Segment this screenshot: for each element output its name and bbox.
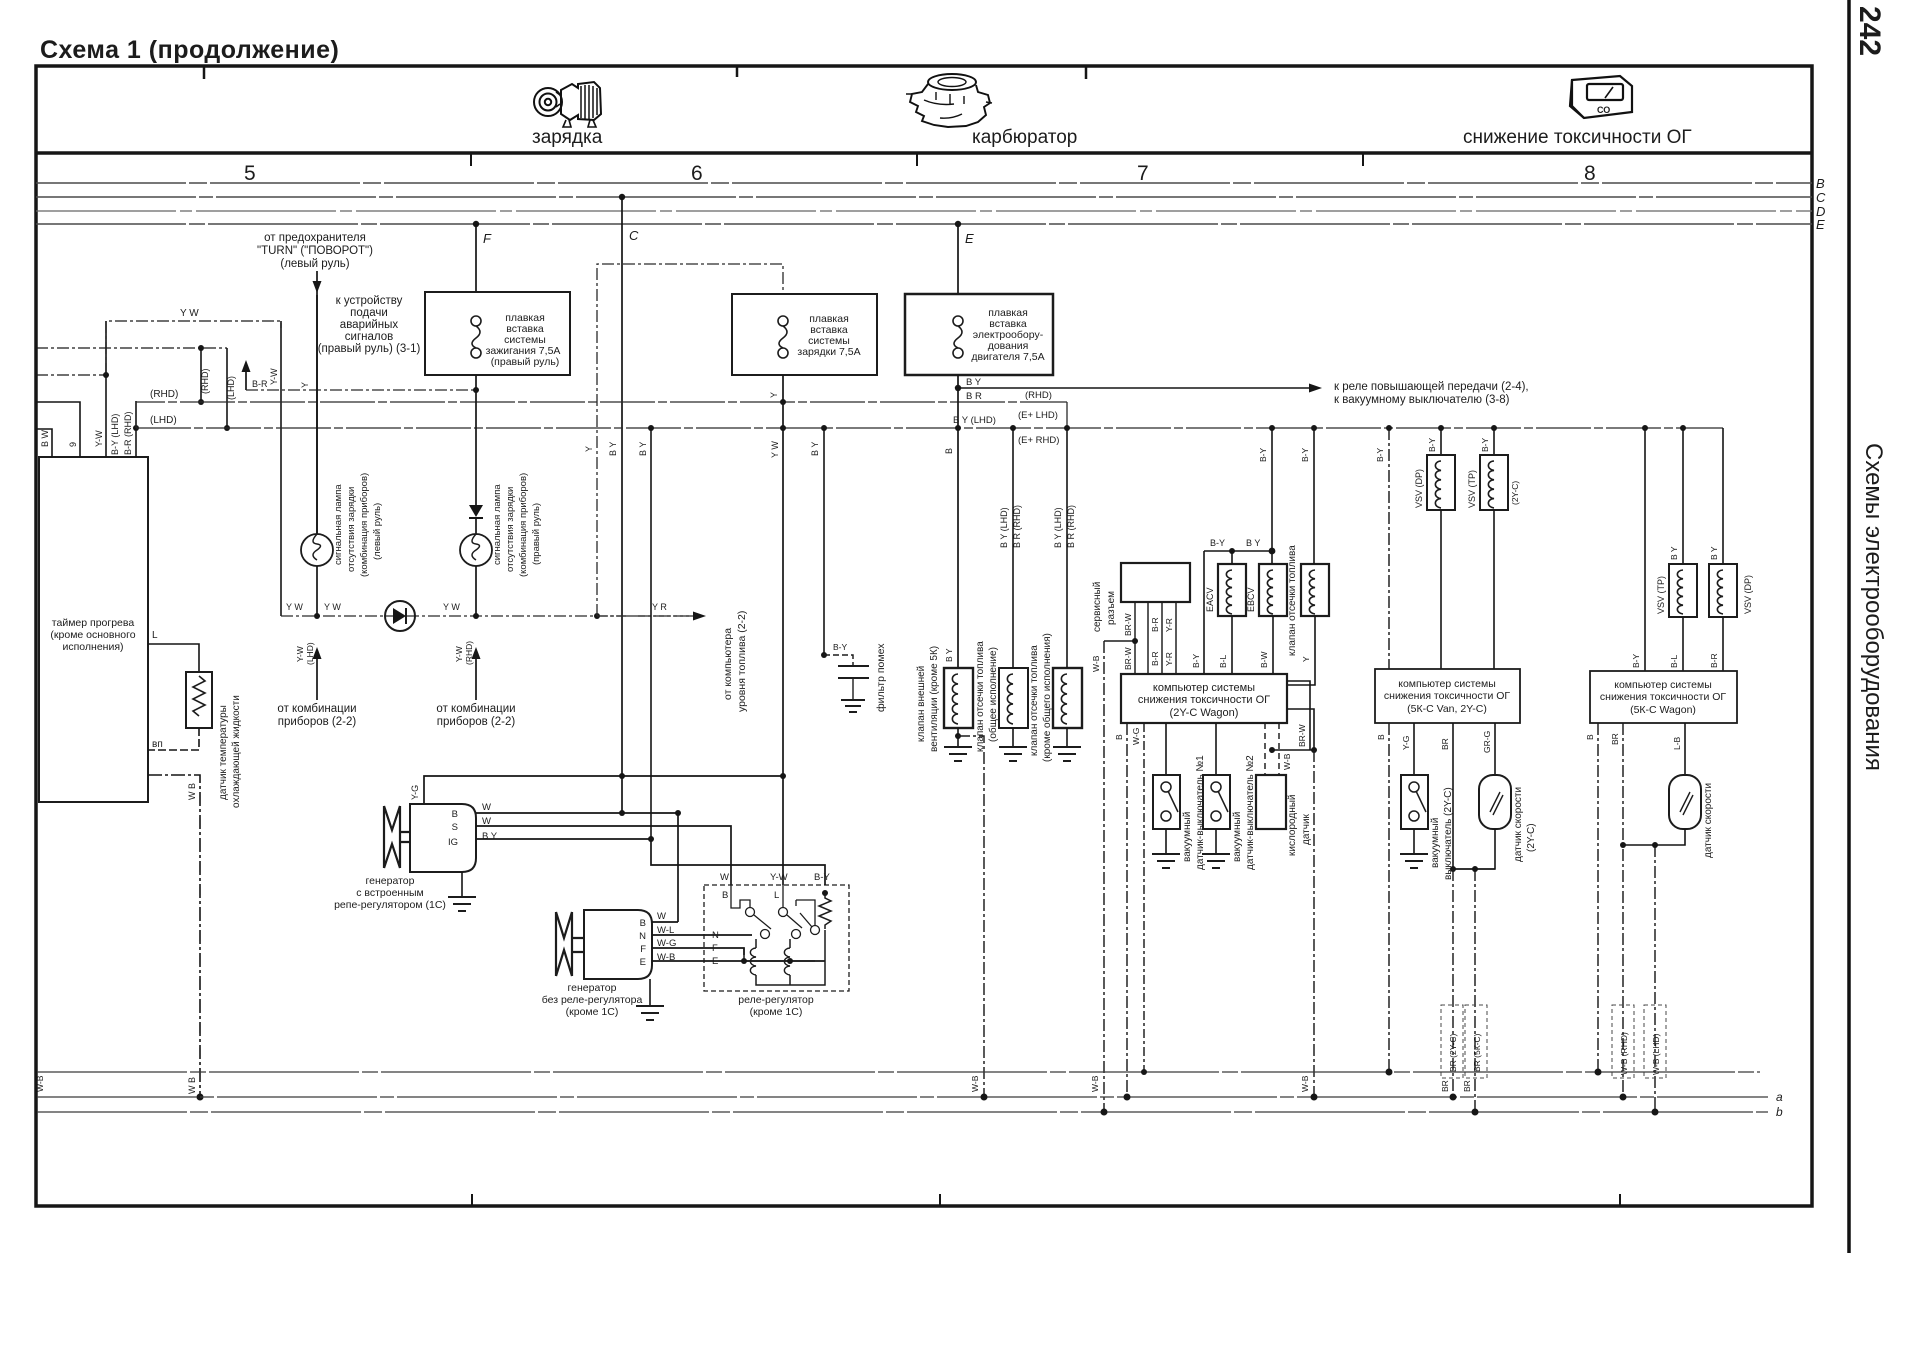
node W-B row right xyxy=(1311,747,1317,753)
wire W-B branch to bottom xyxy=(958,736,984,1097)
ground vsw comp2 xyxy=(1400,854,1428,868)
svg-text:(LHD): (LHD) xyxy=(226,376,236,400)
svg-text:a: a xyxy=(1776,1090,1783,1104)
note к устройству подачи аварийных сигналов xyxy=(318,295,421,355)
svg-text:вп: вп xyxy=(152,739,163,750)
VSV (DP) left box xyxy=(1427,455,1455,510)
svg-text:W B: W B xyxy=(187,1077,197,1094)
svg-text:B Y: B Y xyxy=(638,442,648,456)
svg-text:зарядки 7,5А: зарядки 7,5А xyxy=(797,346,860,358)
arrowhead right on fuel computer wire xyxy=(693,612,706,621)
node y402 end corner xyxy=(1066,402,1068,428)
wire VSV TP2 to comp3 xyxy=(1682,617,1684,671)
vacuum switch comp2 box xyxy=(1401,775,1428,829)
label box BR (2Y-C) xyxy=(1441,1005,1463,1078)
node BR joint xyxy=(1450,866,1456,872)
svg-text:с встроенным: с встроенным xyxy=(356,887,424,899)
wire gen2 B row to riser xyxy=(652,921,678,923)
lamp сигнальная лампа (левый руль) xyxy=(301,534,333,566)
bus line D xyxy=(36,210,1812,212)
node upper rail x1144 xyxy=(1141,1069,1147,1075)
bottom border tick 2 xyxy=(939,1194,941,1205)
svg-text:фильтр помех: фильтр помех xyxy=(875,643,887,712)
svg-text:BR: BR xyxy=(1462,1080,1472,1092)
vacuum switch 2 box xyxy=(1203,775,1230,829)
svg-text:охлаждающей жидкости: охлаждающей жидкости xyxy=(231,695,242,808)
bottom rail a xyxy=(37,1096,1768,1098)
node a x1127 xyxy=(1124,1094,1131,1101)
wire valve2 bottom to ground xyxy=(1012,728,1014,747)
svg-text:без реле-регулятора: без реле-регулятора xyxy=(542,994,643,1006)
svg-text:BR: BR xyxy=(1440,738,1450,750)
svg-text:датчик-выключатель №1: датчик-выключатель №1 xyxy=(1195,755,1206,870)
svg-text:W-B: W-B xyxy=(970,1075,980,1092)
bottom rail b xyxy=(37,1111,1768,1113)
node filter xyxy=(821,652,827,658)
wire VSV TP1 riser xyxy=(1493,428,1495,455)
wire B-Y into computer1 xyxy=(1203,551,1205,674)
svg-text:W-B: W-B xyxy=(35,1075,45,1092)
svg-text:(правый руль): (правый руль) xyxy=(531,503,542,565)
svg-text:Y: Y xyxy=(584,446,594,452)
svg-text:от компьютера: от компьютера xyxy=(722,628,734,700)
svg-text:BR-W: BR-W xyxy=(1297,724,1307,747)
wire link y264 to fuse2 xyxy=(597,264,783,616)
diode on lamp2 column xyxy=(469,505,483,518)
wire gen2 N row xyxy=(652,934,752,936)
fuse element F2 xyxy=(778,316,788,358)
relay coil 1 xyxy=(750,948,756,975)
node relay B-Y top xyxy=(822,890,828,896)
svg-text:E: E xyxy=(640,957,646,968)
wire rail B-R y390 xyxy=(246,389,476,391)
svg-text:B-R: B-R xyxy=(1709,653,1719,668)
wire BR continue to rail a xyxy=(1452,869,1454,1097)
wire EACV top stub xyxy=(1231,551,1233,564)
svg-text:IG: IG xyxy=(448,837,458,848)
node relay E1 xyxy=(741,958,747,964)
svg-text:уровня топлива (2-2): уровня топлива (2-2) xyxy=(736,611,748,712)
svg-text:F: F xyxy=(640,944,646,955)
wires service connector pins xyxy=(1135,602,1176,674)
svg-text:B-L: B-L xyxy=(1218,655,1228,669)
svg-text:от комбинации: от комбинации xyxy=(436,703,515,715)
node fuse2 y428 xyxy=(780,425,786,431)
wire sensor bottom to timer xyxy=(148,728,199,750)
svg-text:B-L: B-L xyxy=(1669,655,1679,669)
svg-text:W: W xyxy=(657,911,666,922)
wire valve2 top xyxy=(1012,428,1014,668)
svg-text:W-B: W-B xyxy=(1282,753,1292,770)
node fuse1 out xyxy=(473,387,479,393)
tick on top border xyxy=(203,67,206,79)
wire LHD column xyxy=(226,348,228,428)
svg-text:W-G: W-G xyxy=(1131,728,1141,745)
wire comp3 B drop xyxy=(1597,723,1599,1072)
wire gen1 B row xyxy=(476,812,678,814)
svg-text:датчик скорости: датчик скорости xyxy=(1703,783,1714,858)
svg-text:карбюратор: карбюратор xyxy=(972,127,1077,148)
wire VSV TP1 to comp2 xyxy=(1493,510,1495,669)
svg-text:B: B xyxy=(452,809,458,820)
wire W-B LHD drop xyxy=(1654,845,1656,1112)
svg-text:датчик температуры: датчик температуры xyxy=(218,705,229,800)
outer frame of schematic sheet xyxy=(36,66,1812,1206)
svg-text:компьютер системы: компьютер системы xyxy=(1153,682,1255,694)
svg-text:Y W: Y W xyxy=(180,308,199,319)
svg-text:B-Y (LHD): B-Y (LHD) xyxy=(110,414,120,455)
fuse box F3 плавкая вставка электрооборудования xyxy=(905,294,1053,375)
svg-text:B Y (LHD): B Y (LHD) xyxy=(953,415,996,426)
wire VSV TP2 riser xyxy=(1682,428,1684,564)
valve клапан отсечки топлива right box xyxy=(1301,564,1329,616)
svg-text:генератор: генератор xyxy=(366,875,415,887)
wire rail LHD y428 main xyxy=(136,427,1723,429)
wire speed sensor1 bottom xyxy=(1453,829,1495,869)
svg-text:Схема 1 (продолжение): Схема 1 (продолжение) xyxy=(40,36,339,64)
node comp3 BR joint xyxy=(1620,842,1626,848)
svg-text:Y W: Y W xyxy=(770,441,780,458)
svg-text:Y R: Y R xyxy=(652,602,667,612)
ruler tick 3 xyxy=(1362,153,1364,166)
svg-text:сигнальная лампа: сигнальная лампа xyxy=(492,484,503,565)
svg-text:снижения токсичности ОГ: снижения токсичности ОГ xyxy=(1384,690,1511,702)
svg-text:(правый руль) (3-1): (правый руль) (3-1) xyxy=(318,343,421,355)
wire VSV DP1 riser xyxy=(1440,428,1442,455)
relay regulator box реле-регулятор xyxy=(704,885,849,991)
wire EACV to computer xyxy=(1231,616,1233,674)
svg-text:снижения токсичности ОГ: снижения токсичности ОГ xyxy=(1600,691,1727,703)
label box W-B (RHD) xyxy=(1612,1005,1634,1078)
svg-text:(RHD): (RHD) xyxy=(200,369,210,395)
wire C drop from bus C xyxy=(621,197,623,813)
wire stub B-W from left border xyxy=(36,429,52,457)
node b x1475 xyxy=(1472,1109,1479,1116)
svg-text:C: C xyxy=(1816,190,1826,205)
wire Y-W pin into timer xyxy=(105,321,107,457)
svg-text:(правый руль): (правый руль) xyxy=(491,356,560,368)
svg-text:клапан отсечки топлива: клапан отсечки топлива xyxy=(975,641,986,752)
wire W-B from timer to bottom rail xyxy=(148,775,200,1097)
wire W-B feed to service pins xyxy=(1104,640,1135,642)
svg-text:снижения токсичности ОГ: снижения токсичности ОГ xyxy=(1138,694,1270,706)
oxygen sensor box кислородный датчик xyxy=(1256,775,1286,829)
wire arrow up to аварийные сигналы xyxy=(245,372,247,390)
node Y-W stub xyxy=(103,372,109,378)
bus line C xyxy=(36,196,1812,198)
node W-B on rail a xyxy=(197,1094,204,1101)
svg-text:W-B: W-B xyxy=(1300,1075,1310,1092)
svg-text:зарядка: зарядка xyxy=(532,127,603,148)
arrowhead up right xyxy=(472,647,481,659)
svg-text:F: F xyxy=(712,943,718,954)
svg-text:BR-W: BR-W xyxy=(1123,647,1133,670)
svg-text:B-Y: B-Y xyxy=(1191,654,1201,669)
wire W-B drop from service xyxy=(1103,641,1105,1112)
svg-text:(общее исполнение): (общее исполнение) xyxy=(987,647,999,742)
computer3 box компьютер системы 5K-C Wagon xyxy=(1590,671,1737,723)
wire fuse2 output riser xyxy=(782,375,784,885)
svg-text:сервисный: сервисный xyxy=(1092,582,1103,632)
svg-text:B-Y: B-Y xyxy=(1300,448,1310,463)
wire comp2 GR-G to speed sensor xyxy=(1494,723,1496,775)
wire valve3 top xyxy=(1066,428,1068,668)
label box W-B (LHD) xyxy=(1644,1005,1666,1078)
svg-text:вентиляции (кроме 5К): вентиляции (кроме 5К) xyxy=(929,646,940,752)
node x651 joint xyxy=(648,836,654,842)
svg-text:B-R (RHD): B-R (RHD) xyxy=(123,412,133,456)
svg-text:B: B xyxy=(1376,734,1386,740)
svg-text:приборов (2-2): приборов (2-2) xyxy=(437,716,516,728)
wire filter drop xyxy=(823,428,825,655)
svg-text:W: W xyxy=(720,872,729,883)
valve клапан отсечки топлива общий box xyxy=(999,668,1028,728)
ground vsw1 xyxy=(1152,854,1180,868)
node a x984 xyxy=(981,1094,988,1101)
svg-text:(кроме общего исполнения): (кроме общего исполнения) xyxy=(1041,633,1053,762)
svg-text:Y-W: Y-W xyxy=(94,430,104,447)
wire W-B row xyxy=(1272,749,1314,751)
ground valve3 xyxy=(1053,747,1081,761)
svg-text:W: W xyxy=(482,802,491,813)
node service BR-W xyxy=(1132,638,1138,644)
svg-text:Y: Y xyxy=(1301,656,1311,662)
node on bus E feeding fuse F xyxy=(473,221,479,227)
wire valve right top riser xyxy=(1313,428,1315,564)
svg-text:"TURN" ("ПОВОРОТ"): "TURN" ("ПОВОРОТ") xyxy=(257,245,373,257)
svg-text:E: E xyxy=(965,231,974,246)
node lamp2 xyxy=(473,613,479,619)
node gen1 B row x678 xyxy=(675,810,681,816)
wire gen1 IG row xyxy=(476,839,825,885)
node a x1314 xyxy=(1311,1094,1318,1101)
svg-text:9: 9 xyxy=(68,442,78,447)
tick on top border 3 xyxy=(1085,67,1088,79)
svg-text:BR: BR xyxy=(1440,1080,1450,1092)
svg-text:(E+ LHD): (E+ LHD) xyxy=(1018,410,1058,421)
node a x1453 xyxy=(1450,1094,1457,1101)
svg-text:вакуумный: вакуумный xyxy=(1182,812,1193,862)
node on bus E feeding fuse3 xyxy=(955,221,961,227)
svg-text:от предохранителя: от предохранителя xyxy=(264,232,366,244)
resistor датчик температуры охлаждающей жидкости xyxy=(186,672,212,728)
svg-text:EACV: EACV xyxy=(1205,587,1215,612)
svg-text:(E+ RHD): (E+ RHD) xyxy=(1018,435,1059,446)
svg-text:B Y: B Y xyxy=(608,442,618,456)
wire RHD column xyxy=(200,348,202,402)
svg-text:(левый руль): (левый руль) xyxy=(280,258,349,270)
node on bus C feeding wire C xyxy=(619,194,625,200)
node valve1 W-B branch xyxy=(955,733,961,739)
node lamp1 xyxy=(314,613,320,619)
svg-text:к вакуумному выключателю (3-8): к вакуумному выключателю (3-8) xyxy=(1334,394,1510,406)
wire fuse3 output xyxy=(957,375,959,668)
VSV (TP) left box xyxy=(1480,455,1508,510)
wire gen1 S row xyxy=(476,826,731,885)
wire E drop from bus E to fuse3 xyxy=(957,224,959,294)
svg-text:B-Y: B-Y xyxy=(1631,654,1641,669)
VSV (TP) right box xyxy=(1669,564,1697,617)
tick on top border 2 xyxy=(736,67,739,77)
svg-text:BR (5К-С): BR (5К-С) xyxy=(1472,1033,1482,1072)
svg-text:L: L xyxy=(152,630,158,641)
relay internal wires xyxy=(744,930,825,985)
svg-text:B-Y: B-Y xyxy=(1480,438,1490,453)
svg-text:(кроме 1С): (кроме 1С) xyxy=(566,1006,619,1018)
svg-text:(LHD): (LHD) xyxy=(305,642,315,665)
svg-text:EBCV: EBCV xyxy=(1246,587,1256,612)
wire second drop to rail b xyxy=(1474,869,1476,1112)
bottom border tick 1 xyxy=(471,1194,473,1205)
svg-text:(левый руль): (левый руль) xyxy=(372,503,383,560)
service connector box сервисный разъем xyxy=(1121,563,1190,602)
wire comp2 B riser xyxy=(1388,428,1390,669)
wire VSV DP1 to comp2 xyxy=(1440,510,1442,669)
svg-text:реле-регулятор: реле-регулятор xyxy=(738,994,814,1006)
fuse box F2 плавкая вставка системы зарядки xyxy=(732,294,877,375)
svg-text:таймер прогрева: таймер прогрева xyxy=(52,617,135,629)
svg-text:сигналов: сигналов xyxy=(345,331,393,343)
svg-text:F: F xyxy=(483,231,492,246)
svg-text:двигателя 7,5А: двигателя 7,5А xyxy=(971,351,1044,363)
node RHD column top xyxy=(198,345,204,351)
svg-text:L: L xyxy=(774,890,779,901)
wire comp1 to vacuum switch2 xyxy=(1215,723,1217,775)
node W-B row left xyxy=(1269,747,1275,753)
wire arrow от комбинации приборов right xyxy=(475,655,477,700)
node upper rail x1598 xyxy=(1595,1069,1602,1076)
svg-text:(комбинация приборов): (комбинация приборов) xyxy=(518,473,529,577)
svg-text:B Y: B Y xyxy=(482,831,498,842)
lamp сигнальная лампа (правый руль) xyxy=(460,534,492,566)
svg-text:(комбинация приборов): (комбинация приборов) xyxy=(359,473,370,577)
svg-text:Y-W: Y-W xyxy=(770,872,788,883)
svg-text:СО: СО xyxy=(1597,105,1610,115)
ruler tick 2 xyxy=(916,153,918,166)
svg-text:W-B (RHD): W-B (RHD) xyxy=(1619,1032,1629,1075)
svg-text:VSV (DP): VSV (DP) xyxy=(1414,469,1424,508)
wire riser YW to lamp line xyxy=(280,321,282,616)
valve клапан внешней вентиляции box xyxy=(944,668,973,728)
svg-text:b: b xyxy=(1776,1105,1783,1119)
svg-text:клапан внешней: клапан внешней xyxy=(916,666,927,742)
ground gen2 xyxy=(636,1006,664,1020)
svg-text:B W: B W xyxy=(40,429,50,447)
arrowhead up xyxy=(242,360,251,372)
wire timer L to sensor xyxy=(148,644,199,672)
node B-Y rail xyxy=(1269,425,1275,431)
svg-text:B-Y: B-Y xyxy=(814,872,831,883)
svg-text:клапан отсечки топлива: клапан отсечки топлива xyxy=(1029,645,1040,756)
wire B-Y top row EACV xyxy=(1204,550,1272,552)
wire comp2 B drop xyxy=(1388,723,1390,1072)
node x597 xyxy=(594,613,600,619)
svg-text:исполнения): исполнения) xyxy=(62,641,123,653)
svg-text:BR (2Y-C): BR (2Y-C) xyxy=(1448,1033,1458,1072)
svg-text:N: N xyxy=(712,930,719,941)
svg-text:E: E xyxy=(1816,217,1825,232)
node relay E2 xyxy=(787,958,793,964)
node VSV TP1 rail xyxy=(1491,425,1497,431)
speed sensor 2 датчик скорости xyxy=(1669,775,1701,829)
svg-text:Y-W: Y-W xyxy=(454,646,464,662)
node b x1655 xyxy=(1652,1109,1659,1116)
node LHD on rail xyxy=(224,425,230,431)
svg-text:B-Y: B-Y xyxy=(1258,448,1268,463)
svg-text:сигнальная лампа: сигнальная лампа xyxy=(333,484,344,565)
wire Y-W top rail xyxy=(106,321,281,375)
wire vsw comp2 ground xyxy=(1413,829,1415,854)
fuse element F1 xyxy=(471,316,481,358)
wire arrow от комбинации приборов left xyxy=(316,655,318,700)
generator G1 pulley xyxy=(384,806,410,868)
ground of filter xyxy=(841,700,865,712)
svg-text:B Y: B Y xyxy=(966,377,982,388)
svg-text:B-Y: B-Y xyxy=(1375,448,1385,463)
wire vsw2 ground xyxy=(1215,829,1217,854)
svg-text:B Y: B Y xyxy=(1709,546,1719,560)
svg-text:B: B xyxy=(640,918,646,929)
svg-text:B-Y: B-Y xyxy=(833,642,848,652)
timer box таймер прогрева xyxy=(39,457,148,802)
wire stub border to RHD/LHD columns xyxy=(36,347,227,349)
svg-text:Схемы электрооборудования: Схемы электрооборудования xyxy=(1860,443,1887,771)
svg-text:BR-W: BR-W xyxy=(1123,613,1133,636)
svg-text:Y-G: Y-G xyxy=(410,785,420,800)
svg-text:аварийных: аварийных xyxy=(340,319,399,331)
wire lamp1 column xyxy=(316,295,318,534)
svg-text:Y-R: Y-R xyxy=(1164,652,1174,666)
node b x1104 xyxy=(1101,1109,1108,1116)
svg-text:B-Y: B-Y xyxy=(1427,438,1437,453)
wire valve3 bottom to ground xyxy=(1066,728,1068,747)
svg-text:кислородный: кислородный xyxy=(1287,794,1298,856)
svg-text:Y W: Y W xyxy=(443,602,460,612)
icon carburetor (карбюратор) xyxy=(906,74,992,127)
svg-text:5: 5 xyxy=(244,162,256,185)
svg-text:BR: BR xyxy=(1610,733,1620,745)
svg-text:от комбинации: от комбинации xyxy=(277,703,356,715)
svg-text:B: B xyxy=(1585,734,1595,740)
wire gen1 top feed xyxy=(424,776,783,804)
node W-B LHD top xyxy=(1652,842,1658,848)
svg-text:(кроме 1С): (кроме 1С) xyxy=(750,1006,803,1018)
svg-text:снижение токсичности ОГ: снижение токсичности ОГ xyxy=(1463,127,1692,148)
svg-text:B-R: B-R xyxy=(1150,651,1160,666)
svg-text:C: C xyxy=(629,228,639,243)
computer1 box компьютер системы 2Y-C Wagon xyxy=(1121,674,1287,723)
bottom rail upper W-B xyxy=(37,1071,1760,1073)
bottom border tick 3 xyxy=(1619,1194,1621,1205)
ground valve2 xyxy=(999,747,1027,761)
svg-text:датчик скорости: датчик скорости xyxy=(1513,787,1524,862)
node valve right rail xyxy=(1311,425,1317,431)
generator G2 pulley xyxy=(556,912,584,976)
svg-text:B Y: B Y xyxy=(944,648,954,662)
svg-text:VSV (TP): VSV (TP) xyxy=(1467,470,1477,508)
svg-text:(2Y-C Wagon): (2Y-C Wagon) xyxy=(1170,707,1239,719)
bus line B xyxy=(36,182,1812,184)
svg-text:6: 6 xyxy=(691,162,703,185)
svg-text:(5К-C Wagon): (5К-C Wagon) xyxy=(1630,704,1696,716)
svg-text:B R: B R xyxy=(966,391,982,402)
node a x1623 xyxy=(1620,1094,1627,1101)
svg-text:компьютер системы: компьютер системы xyxy=(1614,679,1712,691)
node upper rail x1389 xyxy=(1386,1069,1393,1076)
diode in circle on lamp rail xyxy=(385,601,415,631)
ground gen1 xyxy=(448,897,476,911)
svg-text:к реле повышающей передачи (2-: к реле повышающей передачи (2-4), xyxy=(1334,381,1529,393)
